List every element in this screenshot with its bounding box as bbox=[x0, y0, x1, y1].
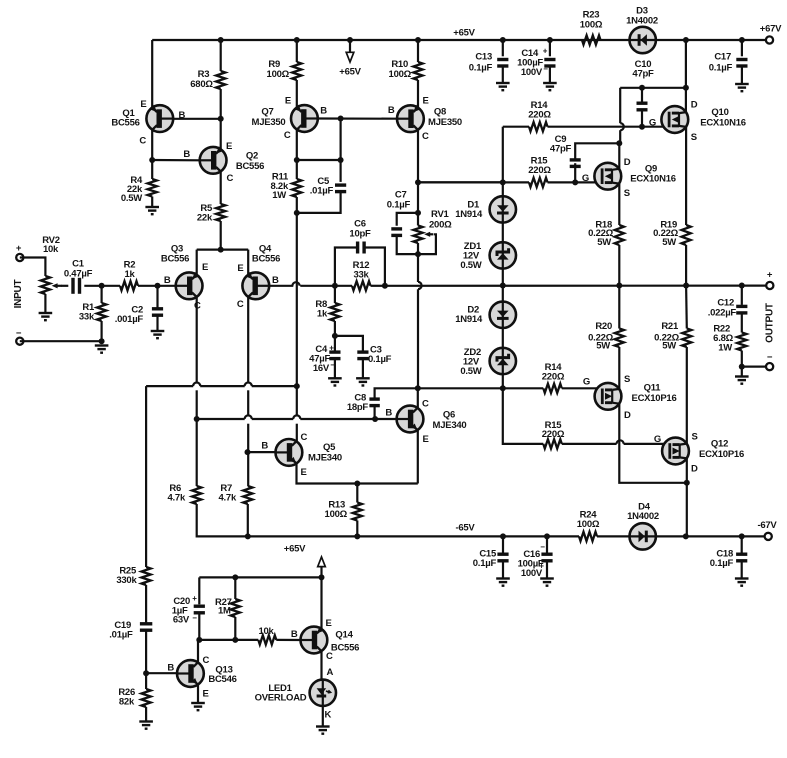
wire Q13 collector bbox=[198, 640, 199, 663]
svg-text:-65V: -65V bbox=[455, 523, 475, 534]
wire +65V top rail bbox=[152, 39, 769, 41]
wire Q2 collector bbox=[220, 171, 222, 204]
svg-text:+: + bbox=[192, 594, 197, 603]
svg-text:Q6: Q6 bbox=[443, 410, 455, 421]
wire Q4 collector column3 bbox=[247, 424, 249, 452]
junction C9 bottom bbox=[572, 179, 578, 185]
svg-text:330k: 330k bbox=[116, 575, 137, 586]
wire R8 top bbox=[334, 286, 336, 303]
svg-text:47pF: 47pF bbox=[632, 69, 654, 80]
wire C16 bottom bbox=[546, 561, 548, 579]
resistor R3 bbox=[216, 71, 225, 89]
svg-text:0.1µF: 0.1µF bbox=[709, 63, 733, 74]
capacitor C8 18pF bbox=[369, 399, 379, 406]
svg-text:4.7k: 4.7k bbox=[219, 493, 237, 504]
wire Q2 base bbox=[152, 159, 200, 162]
wire R15l right bbox=[562, 443, 617, 445]
svg-text:.022µF: .022µF bbox=[708, 308, 737, 319]
RV2 wiper bbox=[52, 283, 58, 288]
svg-text:S: S bbox=[692, 432, 698, 443]
wire lower gate node wire bbox=[418, 387, 503, 389]
svg-text:MJE340: MJE340 bbox=[433, 420, 467, 431]
wire R12 wire bbox=[371, 285, 385, 287]
junction drains bbox=[684, 480, 690, 486]
wire bias col to rail hop bbox=[417, 254, 419, 282]
wire Q3 collector column2 bbox=[196, 390, 198, 419]
wire mirror base down bbox=[340, 119, 342, 182]
wire Q14 collector bbox=[320, 651, 322, 680]
junction R27 top bbox=[232, 574, 238, 580]
wire railB segment2 bbox=[252, 418, 294, 420]
wire R4 top bbox=[151, 160, 153, 179]
svg-text:B: B bbox=[320, 106, 327, 117]
wire input- bbox=[20, 340, 102, 342]
wire R10 top bbox=[417, 40, 419, 62]
wire C12 lead bbox=[741, 286, 743, 305]
junction input minus bbox=[99, 338, 105, 344]
svg-text:G: G bbox=[582, 173, 589, 184]
wire C15 bottom bbox=[502, 561, 504, 579]
wire +65V to Q14 E bbox=[320, 577, 322, 629]
wire bias col lower bbox=[417, 289, 419, 388]
wire C15 lead bbox=[502, 536, 504, 554]
wire R15l to Q12 gate bbox=[624, 443, 670, 445]
wire 10k to Q14 base bbox=[276, 639, 301, 641]
svg-text:10pF: 10pF bbox=[349, 229, 371, 240]
svg-text:Q8: Q8 bbox=[434, 107, 446, 118]
junction rail R9 bbox=[294, 37, 300, 43]
wire C2 top bbox=[156, 286, 158, 309]
svg-text:63V: 63V bbox=[173, 615, 190, 626]
wire ZD1 to rail bbox=[502, 269, 504, 302]
svg-text:C: C bbox=[301, 432, 308, 443]
wire C10 col upper bbox=[619, 88, 621, 123]
wire diff emitter bar bbox=[197, 249, 249, 251]
capacitor C10 47pF bbox=[637, 103, 648, 110]
svg-text:B: B bbox=[385, 408, 392, 419]
wire R27 bottom lead bbox=[234, 617, 236, 640]
svg-text:5W: 5W bbox=[662, 237, 676, 248]
junction chain mid rail bbox=[500, 283, 506, 289]
svg-text:1N4002: 1N4002 bbox=[626, 16, 658, 27]
junction C2 top bbox=[155, 283, 161, 289]
wire R3 to Q1 base node bbox=[220, 89, 222, 119]
wire Q7 coll to C5 col bbox=[297, 159, 341, 161]
transistor Q1 BC556 bbox=[146, 105, 173, 132]
svg-text:+: + bbox=[329, 344, 334, 353]
diode D4 1N4002 bbox=[630, 523, 656, 549]
wire R11 column mid bbox=[296, 197, 298, 386]
resistor R22 6.8 bbox=[737, 333, 746, 351]
junction C20 bottom Q13 C bbox=[196, 637, 202, 643]
junction Q1 base R3 bbox=[218, 116, 224, 122]
capacitor C5 .01uF bbox=[335, 185, 346, 192]
transistor Q4 BC556 bbox=[242, 272, 269, 299]
wire Q12 drain bbox=[686, 458, 688, 482]
wire -65V rail2 bbox=[597, 535, 630, 537]
svg-text:22k: 22k bbox=[197, 213, 213, 224]
svg-text:MJE350: MJE350 bbox=[428, 117, 462, 128]
svg-text:220Ω: 220Ω bbox=[528, 165, 551, 176]
junction Q5 base bbox=[245, 449, 251, 455]
wire C12-R22 bbox=[741, 313, 743, 333]
wire bias col upper bbox=[417, 182, 419, 213]
wire C17 lead bbox=[741, 40, 743, 56]
junction C16 rail bbox=[544, 533, 550, 539]
svg-text:220Ω: 220Ω bbox=[542, 372, 565, 383]
svg-text:BC546: BC546 bbox=[208, 674, 236, 685]
wire ZD2 bottom bbox=[502, 374, 504, 388]
svg-text:.001µF: .001µF bbox=[115, 314, 144, 325]
wire R20 to Q11 S bbox=[618, 347, 620, 389]
wire bias node to D1 bbox=[418, 181, 503, 183]
wire C3 bottom bbox=[362, 359, 364, 378]
wire Q5 collector lead bbox=[296, 424, 298, 442]
ground Q13 emitter bbox=[191, 703, 205, 710]
svg-text:S: S bbox=[624, 188, 630, 199]
wire railA segment1 bbox=[146, 385, 193, 387]
svg-text:0.5W: 0.5W bbox=[460, 366, 481, 377]
wire R14u right bbox=[548, 126, 670, 128]
trimmer RV1 200 bbox=[413, 226, 422, 244]
resistor R2 1k bbox=[120, 281, 138, 290]
mosfet Q10 ECX10N16 bbox=[661, 106, 688, 133]
svg-text:Q2: Q2 bbox=[246, 151, 258, 162]
wire R14u drop bbox=[502, 127, 504, 183]
svg-text:E: E bbox=[140, 99, 146, 110]
junction +65V node bbox=[319, 574, 325, 580]
wire Q1 collector bbox=[151, 129, 153, 160]
junction R19 rail bbox=[683, 283, 689, 289]
wire R14u left bbox=[503, 126, 529, 128]
ground C16 bbox=[540, 579, 554, 586]
wire Q10 drain bbox=[685, 40, 687, 112]
resistor R25 330k bbox=[142, 567, 151, 585]
zener ZD2 12V bbox=[490, 348, 516, 374]
svg-text:100Ω: 100Ω bbox=[580, 20, 603, 31]
wire C8 top bbox=[375, 388, 418, 399]
capacitor C16 100uF bbox=[541, 554, 552, 561]
svg-text:0.5W: 0.5W bbox=[460, 260, 481, 271]
junction RV1 bottom bbox=[415, 251, 421, 257]
zener ZD1 12V bbox=[490, 242, 516, 268]
wire R1 top bbox=[100, 286, 102, 303]
svg-text:+: + bbox=[543, 47, 548, 56]
wire C10 bottom lead bbox=[641, 110, 643, 127]
svg-text:0.5W: 0.5W bbox=[121, 193, 142, 204]
wire Q10 source bbox=[685, 127, 687, 225]
svg-text:C17: C17 bbox=[714, 52, 731, 63]
svg-text:.01µF: .01µF bbox=[310, 186, 334, 197]
wire R19 bottom bbox=[685, 245, 687, 286]
potentiometer RV2 10k bbox=[41, 276, 50, 294]
wire input+ to RV2 bbox=[20, 258, 46, 277]
junction C10 top bbox=[639, 85, 645, 91]
wire C10 col lower bbox=[619, 130, 621, 143]
svg-text:E: E bbox=[301, 467, 307, 478]
svg-text:Q12: Q12 bbox=[711, 439, 728, 450]
wire R14l right bbox=[562, 387, 603, 389]
capacitor C2 .001uF bbox=[152, 309, 163, 315]
wire RV1 top lead bbox=[417, 213, 419, 226]
svg-text:B: B bbox=[261, 441, 268, 452]
svg-text:-67V: -67V bbox=[757, 520, 777, 531]
wire drains to rail bbox=[686, 483, 688, 537]
svg-text:R21: R21 bbox=[661, 321, 679, 332]
junction D1 top bbox=[500, 179, 506, 185]
wire R7 bottom bbox=[247, 504, 249, 536]
svg-text:B: B bbox=[183, 149, 190, 160]
wire Q1 emitter column bbox=[151, 40, 153, 109]
wire D1 lead bbox=[502, 182, 504, 197]
svg-text:D: D bbox=[624, 410, 631, 421]
wire C16 lead bbox=[546, 536, 548, 554]
ground R22 bbox=[735, 377, 749, 384]
junction Q7 coll node bbox=[294, 157, 300, 163]
wire railB segment1 bbox=[197, 418, 245, 420]
svg-text:S: S bbox=[691, 132, 697, 143]
wire R14l left bbox=[503, 387, 544, 389]
hop railA over Q3 column bbox=[193, 383, 200, 387]
svg-text:5W: 5W bbox=[662, 341, 676, 352]
svg-text:C: C bbox=[139, 136, 146, 147]
wire R25 column top bbox=[145, 386, 147, 567]
wire R10 to Q8 bbox=[417, 80, 419, 109]
wire R18 bottom bbox=[618, 245, 620, 286]
wire C7 bottom bbox=[397, 236, 418, 255]
wire LED cathode bbox=[322, 706, 324, 727]
svg-text:100Ω: 100Ω bbox=[389, 69, 412, 80]
wire to output minus2 bbox=[742, 366, 770, 368]
resistor R15 lower bbox=[543, 439, 562, 448]
svg-text:BC556: BC556 bbox=[331, 643, 359, 654]
wire R13 top lead bbox=[356, 484, 358, 503]
diode D2 1N914 bbox=[490, 302, 516, 328]
wire R8 bottom bbox=[334, 321, 336, 352]
resistor R12 33k bbox=[352, 281, 371, 290]
terminal output + bbox=[766, 282, 773, 289]
svg-text:1k: 1k bbox=[124, 269, 135, 280]
wire C10 top wire bbox=[620, 87, 686, 89]
wire R21 top bbox=[685, 286, 688, 329]
svg-text:Q11: Q11 bbox=[644, 383, 662, 394]
capacitor C6 10pF bbox=[358, 242, 365, 254]
svg-text:C: C bbox=[227, 173, 234, 184]
transistor Q6 MJE340 bbox=[397, 406, 424, 433]
capacitor C17 0.1uF bbox=[736, 60, 747, 67]
hop railA over Q4 column bbox=[245, 383, 252, 387]
hop Q4 base over R11 column bbox=[292, 282, 299, 286]
svg-text:E: E bbox=[285, 96, 291, 107]
wire R21 to Q12 S bbox=[686, 347, 688, 444]
wire R12 left bbox=[335, 285, 352, 287]
power +65V arrow top bbox=[349, 40, 351, 53]
svg-text:C: C bbox=[203, 655, 210, 666]
wire detector base row bbox=[198, 639, 258, 641]
junction C4 node bbox=[332, 333, 338, 339]
ground C18 bbox=[735, 579, 749, 586]
svg-text:10k: 10k bbox=[258, 626, 274, 637]
wire R2 to Q3 bbox=[138, 285, 176, 287]
svg-text:BC556: BC556 bbox=[111, 118, 139, 129]
svg-text:E: E bbox=[237, 263, 243, 274]
resistor R19 0.22 bbox=[682, 225, 691, 245]
svg-text:0.1µF: 0.1µF bbox=[473, 558, 497, 569]
svg-text:C: C bbox=[237, 299, 244, 310]
junction rail R10 bbox=[415, 37, 421, 43]
transistor Q14 BC556 bbox=[301, 626, 328, 653]
svg-text:33k: 33k bbox=[353, 270, 369, 281]
svg-text:D: D bbox=[624, 157, 631, 168]
svg-text:G: G bbox=[654, 434, 661, 445]
svg-text:1k: 1k bbox=[317, 309, 328, 320]
terminal +67V bbox=[766, 36, 773, 43]
svg-text:200Ω: 200Ω bbox=[429, 220, 452, 231]
svg-text:16V: 16V bbox=[313, 363, 330, 374]
junction rail C14 bbox=[547, 37, 553, 43]
transistor Q13 BC546 bbox=[177, 660, 204, 687]
svg-text:1M: 1M bbox=[218, 606, 231, 617]
wire C14 lead bbox=[549, 40, 551, 56]
wire R5 to diff emitters bbox=[220, 221, 222, 250]
wire C20 bottom lead bbox=[198, 613, 200, 640]
wire Q13 emitter bbox=[197, 684, 199, 703]
svg-text:ECX10N16: ECX10N16 bbox=[630, 174, 676, 185]
ground R26 bbox=[139, 722, 153, 729]
hop C10 col over gate wire bbox=[620, 123, 624, 130]
junction bias top node bbox=[415, 179, 421, 185]
junction C12 rail bbox=[739, 283, 745, 289]
junction RV1 top bbox=[415, 210, 421, 216]
wire Q7 base bbox=[318, 117, 397, 119]
resistor R20 0.22 bbox=[615, 329, 624, 348]
svg-text:MJE340: MJE340 bbox=[308, 453, 342, 464]
wire R1 bottom bbox=[100, 321, 102, 341]
junction R1 top bbox=[99, 283, 105, 289]
resistor 10k bbox=[258, 635, 276, 644]
wire Q9 source bbox=[618, 184, 620, 225]
wire C20 top lead bbox=[198, 577, 200, 604]
svg-text:33k: 33k bbox=[79, 312, 95, 323]
svg-text:BC556: BC556 bbox=[252, 254, 280, 265]
junction R27 bottom bbox=[232, 637, 238, 643]
junction ZD2 bottom node bbox=[500, 385, 506, 391]
wire railA segment3 bbox=[252, 385, 297, 387]
svg-text:0.47µF: 0.47µF bbox=[64, 269, 93, 280]
wire C14 bottom bbox=[549, 66, 551, 83]
wire C13 lead bbox=[502, 40, 504, 56]
capacitor C13 0.1uF bbox=[497, 60, 508, 67]
junction R11 C5 bottom bbox=[294, 210, 300, 216]
svg-text:E: E bbox=[423, 96, 429, 107]
svg-text:0.1µF: 0.1µF bbox=[469, 63, 493, 74]
svg-text:100Ω: 100Ω bbox=[577, 519, 600, 530]
wire Q6 collector bbox=[417, 388, 419, 408]
capacitor C12 .022uF bbox=[736, 306, 747, 313]
capacitor C20 1uF bbox=[194, 606, 205, 613]
mosfet Q12 ECX10P16 bbox=[662, 438, 689, 465]
ground RV2 bbox=[39, 313, 53, 320]
wire R22 bottom bbox=[741, 351, 743, 367]
wire C9 top lead bbox=[574, 163, 576, 182]
svg-text:−: − bbox=[543, 65, 548, 74]
wire R15l drop bbox=[503, 388, 544, 444]
resistor R21 0.22 bbox=[682, 329, 691, 348]
wire R27 top bbox=[234, 577, 236, 599]
ground C2 bbox=[151, 331, 165, 338]
wire R20 top bbox=[618, 286, 620, 329]
wire C4 bottom bbox=[334, 359, 336, 378]
svg-text:47pF: 47pF bbox=[550, 144, 572, 155]
resistor R1 33k bbox=[97, 303, 106, 321]
wire Q5 base bbox=[248, 451, 276, 453]
svg-text:1W: 1W bbox=[272, 190, 286, 201]
svg-text:C: C bbox=[326, 651, 333, 662]
svg-text:5W: 5W bbox=[597, 237, 611, 248]
svg-text:1N914: 1N914 bbox=[455, 209, 483, 220]
junction R22 gnd node bbox=[739, 364, 745, 370]
resistor R10 100 bbox=[413, 62, 422, 80]
svg-text:ECX10P16: ECX10P16 bbox=[631, 393, 676, 404]
ground C13 bbox=[496, 83, 510, 90]
power +65V arrow Q14 bbox=[320, 566, 322, 577]
svg-text:Q14: Q14 bbox=[335, 630, 353, 641]
svg-text:C13: C13 bbox=[475, 52, 492, 63]
svg-text:+67V: +67V bbox=[760, 24, 782, 35]
transistor Q3 BC556 bbox=[176, 272, 203, 299]
svg-text:RV1: RV1 bbox=[431, 209, 450, 220]
svg-text:+: + bbox=[767, 270, 773, 281]
resistor R11 8.2k bbox=[292, 179, 301, 197]
capacitor C19 .01uF bbox=[140, 624, 152, 630]
svg-text:+65V: +65V bbox=[284, 544, 306, 555]
svg-text:−: − bbox=[540, 543, 545, 552]
wire C7 top bbox=[397, 213, 418, 226]
svg-text:B: B bbox=[164, 275, 171, 286]
svg-text:C: C bbox=[284, 130, 291, 141]
svg-text:OUTPUT: OUTPUT bbox=[765, 303, 776, 343]
wire Q6 emitter bbox=[417, 430, 419, 484]
wire R4 bottom bbox=[151, 197, 153, 208]
svg-text:C: C bbox=[422, 131, 429, 142]
svg-text:4.7k: 4.7k bbox=[168, 493, 186, 504]
wire R6 bottom railC corner bbox=[197, 504, 246, 536]
junction Q7 collector link bbox=[338, 157, 344, 163]
wire R13 bottom bbox=[356, 521, 358, 537]
svg-text:1W: 1W bbox=[718, 343, 732, 354]
wire -65V rail3 bbox=[656, 535, 768, 537]
ground R4 bbox=[145, 207, 159, 214]
wire R15u left bbox=[418, 181, 529, 183]
svg-text:1N914: 1N914 bbox=[455, 314, 483, 325]
svg-text:E: E bbox=[203, 689, 209, 700]
junction R12 right bbox=[382, 283, 388, 289]
wire to output minus bbox=[741, 367, 743, 377]
wire R15u right bbox=[548, 181, 603, 183]
capacitor C9 47pF bbox=[570, 160, 581, 167]
junction C15 rail bbox=[500, 533, 506, 539]
resistor R27 1M bbox=[231, 599, 240, 617]
wire C2 bottom bbox=[156, 315, 158, 331]
resistor R18 0.22 bbox=[615, 225, 624, 245]
svg-text:G: G bbox=[649, 118, 656, 129]
resistor R14 upper bbox=[529, 122, 548, 131]
svg-text:E: E bbox=[226, 141, 232, 152]
junction R18 rail bbox=[616, 283, 622, 289]
ground C14 bbox=[543, 83, 557, 90]
wire Q3 collector column bbox=[196, 297, 198, 382]
junction D4 Q12 drain bbox=[683, 533, 689, 539]
